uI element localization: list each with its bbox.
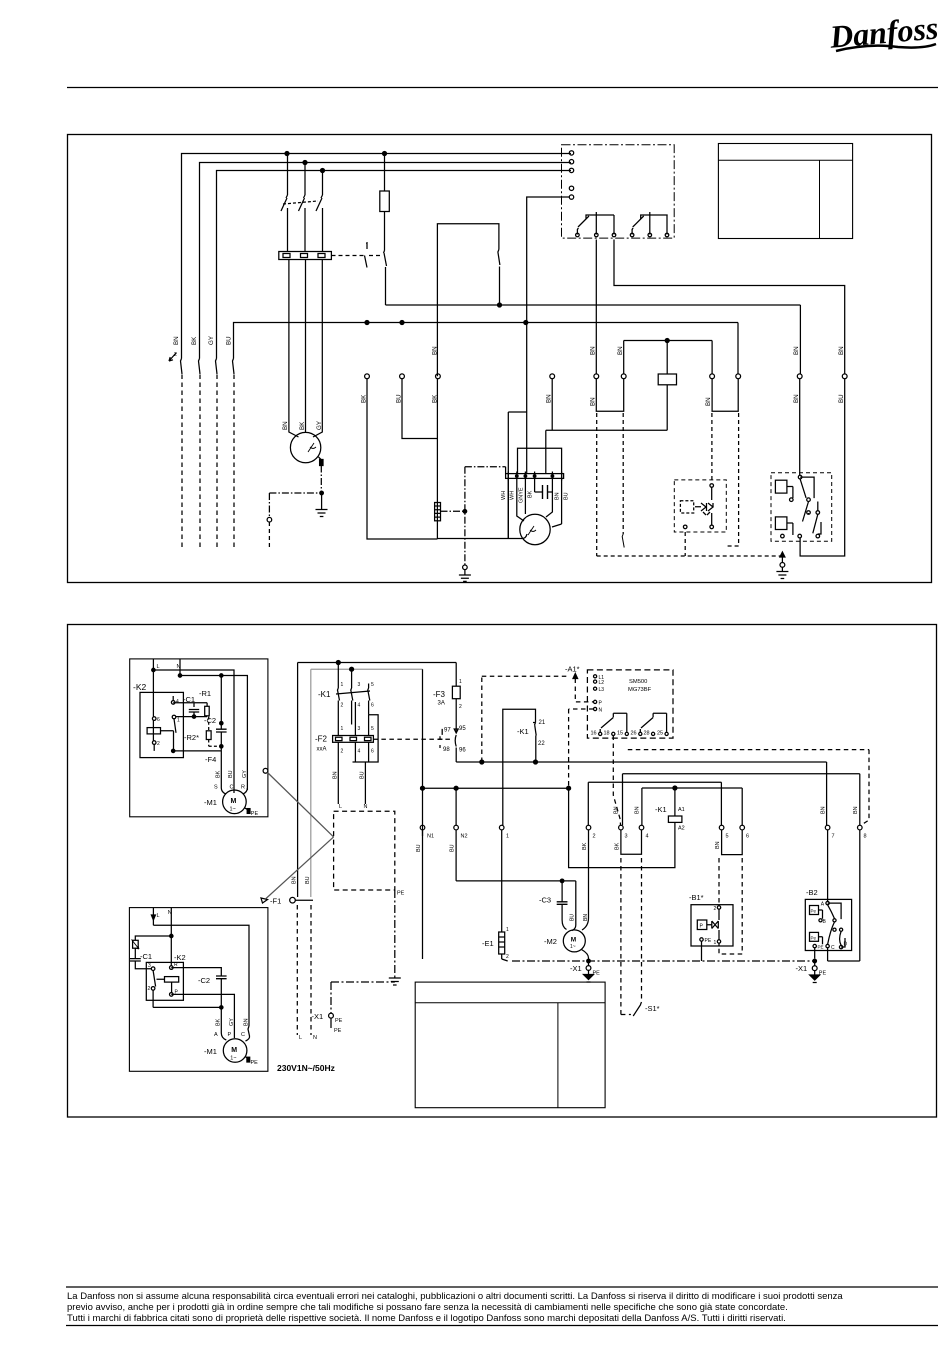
module2 C2 bottom [220, 979, 222, 1007]
B-box2 sensor square 2 [775, 517, 787, 530]
node module2 A [220, 1006, 223, 1009]
svg-text:5: 5 [371, 726, 374, 732]
dashed door-switch loop legs [596, 413, 598, 556]
motor wires below overload [289, 260, 322, 438]
A-box relay group 2 terminals [630, 233, 634, 237]
svg-text:BK: BK [216, 770, 222, 778]
PTC dash-dot wire down [320, 466, 322, 494]
svg-text:-K1: -K1 [655, 805, 667, 814]
callout line upper [268, 773, 334, 837]
svg-text:25: 25 [657, 731, 663, 737]
A-box relay contact group 1 [577, 212, 614, 235]
dash-dot wire PE horizontal [269, 492, 321, 494]
trip contact 95-96 [454, 729, 458, 762]
dashed S1 wire left [621, 858, 631, 1015]
svg-text:1: 1 [459, 679, 462, 685]
C2 wire bottom [220, 732, 222, 751]
wire term5-6 U below [722, 830, 743, 855]
wire PE stub [781, 556, 783, 571]
svg-text:28: 28 [644, 731, 650, 737]
overload relay F2 body [279, 252, 332, 260]
detail module 2 box [129, 908, 268, 1072]
svg-text:2: 2 [157, 741, 160, 747]
box2 top bus N gray [311, 668, 423, 670]
diagram 2 border [68, 625, 937, 1118]
capacitor C2 plates module2 [216, 976, 227, 979]
node busN-1 [365, 321, 369, 325]
ground symbol right [776, 572, 788, 579]
svg-text:PE: PE [819, 971, 827, 977]
K2m2 pin R [170, 966, 174, 970]
svg-text:BU: BU [228, 770, 234, 778]
capacitor C3 plates [557, 902, 568, 905]
PE dash-dot drop right [331, 890, 395, 982]
wire term2 below to fan M2 [582, 830, 589, 930]
svg-text:-R2*: -R2* [184, 733, 199, 742]
resistor R2 dashed link [209, 717, 219, 747]
F2 loop [353, 715, 379, 804]
svg-text:-R1: -R1 [199, 689, 211, 698]
SM500 terminal L2 [594, 680, 597, 683]
B2 X1 node [813, 959, 817, 963]
svg-text:2: 2 [714, 906, 717, 912]
R1 bottom wire [206, 715, 208, 718]
SM500 terminal L1 [594, 675, 597, 678]
svg-text:BN: BN [244, 1018, 250, 1026]
svg-text:96: 96 [459, 748, 466, 754]
SM500 terminal N [594, 707, 597, 710]
node top bus N K1 [350, 667, 354, 671]
coil rail y430 [546, 429, 667, 431]
top rule [67, 87, 938, 89]
K2 blade [174, 719, 176, 733]
F2 notch 1 [336, 737, 343, 740]
fuse F3 wire top [455, 663, 457, 687]
node top bus K1 [336, 661, 340, 665]
A-box input terminals [569, 151, 573, 155]
svg-text:97: 97 [444, 728, 451, 734]
enclosure loop contact blade [498, 250, 500, 306]
module1 L wire [152, 659, 154, 670]
svg-text:4: 4 [176, 699, 179, 705]
svg-text:PE: PE [251, 811, 259, 817]
svg-text:BN: BN [282, 421, 289, 430]
E1 pe stub [502, 959, 508, 961]
svg-text:BU: BU [305, 876, 311, 884]
B2 PE terminal [813, 944, 816, 947]
svg-text:A: A [214, 1032, 218, 1038]
node rail A K1aux [534, 760, 538, 764]
callout circle module1 [263, 768, 268, 773]
svg-text:6: 6 [371, 749, 374, 755]
svg-text:BN: BN [634, 806, 640, 814]
svg-text:BK: BK [361, 394, 368, 403]
fuse F body [380, 191, 390, 212]
svg-text:PE: PE [593, 971, 601, 977]
node C2 top [220, 722, 223, 725]
fuse F lower line [384, 212, 386, 251]
rail B y773.7 [623, 774, 860, 826]
svg-text:Pe: Pe [811, 935, 817, 940]
legend table header line [415, 1002, 605, 1004]
dashed B1 wire left [718, 858, 720, 905]
overload trip dashed link [332, 255, 365, 257]
node module2 N [170, 934, 173, 937]
svg-text:N1: N1 [427, 834, 434, 840]
svg-text:WH: WH [510, 491, 516, 500]
svg-text:BN: BN [333, 771, 339, 779]
A1 dashed riser [482, 676, 568, 762]
dash-dot PE rail [512, 960, 815, 962]
SM500 bottom terminals [599, 732, 602, 735]
svg-text:2: 2 [341, 703, 344, 709]
terminal row box2 [420, 825, 425, 830]
dashed B-box1 right leg [726, 413, 739, 546]
K2 coil wire [161, 731, 174, 734]
svg-text:BU: BU [360, 771, 366, 779]
B2 box [805, 899, 851, 950]
svg-text:1~: 1~ [230, 1056, 236, 1062]
svg-text:2: 2 [148, 986, 151, 992]
svg-text:BK: BK [191, 336, 198, 345]
module2 N wire [170, 908, 172, 966]
svg-text:PE: PE [705, 938, 712, 944]
wire U term 712-738 [712, 379, 738, 412]
node rail N N2 [454, 786, 458, 790]
contactor K1 box2 pole1 [337, 665, 339, 725]
node rail A dashed A1 [480, 760, 484, 764]
B1 terminal 1 [717, 940, 720, 943]
resistor R1 body [205, 706, 210, 716]
node aux bus [665, 339, 669, 343]
module2 PE stub [245, 1057, 248, 1059]
B-box2 internal wiring [787, 477, 821, 535]
svg-text:-X1: -X1 [570, 964, 582, 973]
relay K2 box module1 [140, 692, 183, 757]
contactor K1 box2 pole2 [351, 671, 353, 725]
B2 X1 circle [812, 966, 817, 971]
strip terminal dots [516, 475, 519, 478]
svg-text:A1: A1 [678, 807, 685, 813]
contactor K1 mechanical link [283, 201, 318, 204]
svg-text:1: 1 [177, 718, 180, 724]
dashed B1 wire right [719, 858, 742, 954]
fuse F3 wire bottom [455, 699, 457, 732]
node PE link [463, 510, 467, 514]
contactor K1 box2 pole3 [368, 684, 370, 715]
trip tick 97-98 [438, 729, 443, 748]
footer top rule [66, 1286, 938, 1288]
PTC arrow [132, 940, 140, 950]
svg-text:BK: BK [432, 394, 439, 403]
svg-text:M: M [231, 1047, 237, 1054]
node bus1-K1 [285, 152, 289, 156]
K2 pin2 wire [153, 720, 173, 751]
K2m2 coil wire [157, 979, 172, 992]
svg-text:4: 4 [358, 749, 361, 755]
terminal circle PE right [780, 563, 785, 568]
module1 PE stub [245, 808, 249, 810]
wire from A-box P to bus322 [527, 197, 569, 412]
svg-text:BK: BK [216, 1018, 222, 1026]
B-box1 pressure switch symbol [695, 503, 713, 515]
K2m2 pin 2 [151, 987, 155, 991]
svg-text:M: M [231, 798, 237, 805]
svg-text:BN: BN [590, 397, 597, 406]
svg-text:1: 1 [341, 726, 344, 732]
svg-text:1: 1 [506, 927, 509, 933]
wire busN end down [737, 323, 739, 374]
control wire y305 [386, 304, 801, 306]
disconnect arrow label [169, 353, 176, 361]
capacitor C1 plates module2 [130, 959, 141, 961]
svg-text:-C1: -C1 [140, 952, 152, 961]
node y305 junction [498, 303, 502, 307]
svg-text:1: 1 [506, 834, 509, 840]
contactor K1 pole 2 blade [299, 195, 306, 211]
module2 C1 branch [135, 936, 171, 969]
K2 pin 1 [172, 715, 176, 719]
svg-text:-M1: -M1 [204, 1047, 217, 1056]
K1 coil wire A1 [674, 788, 676, 816]
node C2 bottom [220, 745, 223, 748]
wire U term 596-623 [596, 379, 623, 412]
node C3 tap [560, 879, 564, 883]
module2 L wire with arrow [152, 908, 154, 925]
svg-text:BK: BK [528, 490, 534, 498]
wire term1 below to E1 [501, 830, 503, 928]
svg-text:N: N [313, 1035, 317, 1041]
module1 PE pin [247, 809, 250, 814]
C3 bottom wire [562, 905, 566, 930]
wire term4 to coil rail [551, 379, 553, 431]
module2 P rail [171, 994, 234, 1033]
svg-text:-K2: -K2 [133, 682, 147, 692]
wire bus N BU [234, 323, 739, 359]
svg-text:-B2: -B2 [806, 888, 818, 897]
svg-text:3: 3 [625, 834, 628, 840]
F1 link line [295, 899, 313, 901]
svg-text:6: 6 [371, 703, 374, 709]
svg-text:1~: 1~ [570, 944, 576, 950]
svg-text:WH: WH [501, 491, 507, 500]
A-box output wire 596 [595, 240, 597, 374]
control box inner divider vertical [819, 160, 821, 238]
svg-text:2: 2 [593, 834, 596, 840]
node bus3-K1 [321, 169, 325, 173]
A-box relay contact group 2 [632, 212, 668, 235]
svg-text:BN: BN [793, 394, 800, 403]
svg-text:-C1: -C1 [183, 695, 195, 704]
M2 bottom wire [582, 950, 589, 962]
F2 notch 3 [365, 737, 372, 740]
SM500 terminal L3 [594, 687, 597, 690]
fuse F3 body [452, 686, 460, 699]
wire term7 below to B2 A [827, 830, 829, 901]
node busN-2 [400, 321, 404, 325]
footer bottom rule [66, 1325, 938, 1327]
callout triangle module2 [261, 898, 268, 903]
ground symbol mid [459, 570, 471, 582]
motor rotation mark [308, 443, 316, 452]
X1 dash-dot stub [330, 982, 332, 1013]
svg-text:MG73BF: MG73BF [628, 687, 652, 693]
SM500 relay contact 2 [640, 713, 666, 732]
K1 mechanical link box2 [336, 691, 370, 694]
wire bus L3 GY [217, 171, 572, 359]
svg-text:M: M [571, 937, 576, 944]
K2m2 pin 3 [151, 967, 155, 971]
B2 D terminal [839, 945, 842, 948]
C1 wires [193, 712, 195, 716]
svg-text:7: 7 [832, 834, 835, 840]
X1 PE stub below [330, 1018, 332, 1028]
contactor K1 pole 3 blade [316, 195, 323, 211]
svg-text:2: 2 [506, 954, 509, 960]
legend table box [415, 982, 605, 1108]
SM500 dashed box [587, 670, 673, 738]
svg-text:C: C [230, 785, 234, 791]
node PTC-PE [320, 491, 324, 495]
node busN-3 [524, 321, 528, 325]
svg-text:GY: GY [316, 421, 323, 430]
contactor K1 pole 2 [304, 164, 306, 252]
compressor feed jog [508, 412, 526, 539]
R2 body [206, 731, 211, 740]
svg-text:BN: BN [614, 806, 620, 814]
svg-text:Pe: Pe [811, 909, 817, 914]
relay coil K body [658, 374, 676, 385]
svg-text:BN: BN [821, 806, 827, 814]
K1 coil body box2 [668, 816, 682, 822]
node rail N end [567, 786, 571, 790]
svg-text:-X1: -X1 [796, 964, 808, 973]
svg-text:-S1*: -S1* [645, 1004, 660, 1013]
dashed wire below PE terminal [268, 522, 270, 549]
compressor feed from strip mid [526, 412, 528, 474]
B2 A terminal [826, 901, 829, 904]
svg-text:BU: BU [838, 394, 845, 403]
dash-dot PE link [441, 510, 465, 512]
rail N y788 [423, 787, 569, 789]
disconnect F1 blades on supply wires [181, 359, 235, 375]
contactor K1 pole 1 blade [281, 195, 288, 211]
svg-text:1: 1 [341, 682, 344, 688]
B1 terminal 2 [717, 906, 720, 909]
svg-text:S: S [214, 785, 218, 791]
B-box2 terminals [798, 475, 802, 479]
svg-text:BN: BN [617, 346, 624, 355]
S1 blade [633, 1002, 641, 1016]
rail D y788 [642, 788, 742, 825]
B1 PE wire [701, 941, 703, 961]
ground symbol at motor [316, 495, 328, 517]
dashed L wire to plug [296, 905, 298, 1035]
svg-text:BU: BU [570, 914, 576, 921]
svg-text:18: 18 [604, 731, 610, 737]
K2 coil [147, 728, 160, 734]
B-box1 terminal top [710, 484, 714, 488]
fan motor M1 module1 [223, 790, 247, 814]
SM500 relay contact 1 [600, 713, 627, 732]
SM500 N dashed wire [569, 709, 594, 786]
svg-text:BN: BN [555, 492, 561, 500]
svg-text:xxA: xxA [317, 747, 327, 753]
compressor motor M circle [290, 432, 320, 462]
svg-text:L: L [157, 664, 160, 670]
legend table column line [557, 1003, 559, 1108]
svg-text:N: N [364, 804, 368, 810]
svg-text:BU: BU [564, 492, 570, 500]
module2 A wire [220, 1007, 222, 1033]
svg-text:L3: L3 [599, 687, 605, 693]
svg-text:4: 4 [646, 834, 649, 840]
B2 X1 stub [814, 948, 816, 975]
K2m2 coil [165, 977, 179, 983]
svg-text:BN: BN [715, 841, 721, 849]
svg-text:3: 3 [358, 726, 361, 732]
svg-text:N2: N2 [461, 834, 468, 840]
svg-text:15: 15 [617, 731, 623, 737]
B2 sensor square 1 [810, 906, 819, 915]
X1 terminal circle left [329, 1013, 334, 1018]
wire term N1 below [422, 830, 424, 959]
svg-text:3: 3 [148, 963, 151, 969]
compressor run capacitor plates [543, 485, 548, 499]
node module1 L [152, 668, 155, 671]
svg-text:SM500: SM500 [629, 679, 647, 685]
A-box output wire 614 routed [614, 240, 845, 374]
svg-text:BN: BN [853, 806, 859, 814]
svg-text:-M2: -M2 [544, 937, 557, 946]
C2 wire top [220, 677, 222, 729]
module2 C2 top rail [171, 968, 221, 976]
wire bus L2 BK [200, 163, 572, 359]
wire term 799 to B-box2 [799, 379, 801, 476]
svg-text:-K1: -K1 [318, 690, 331, 699]
wire term1 to compressor [367, 379, 437, 539]
svg-text:-M1: -M1 [204, 798, 217, 807]
svg-text:R: R [241, 785, 245, 791]
svg-text:GY: GY [229, 1018, 235, 1026]
svg-text:3: 3 [358, 682, 361, 688]
SM500 output dashed to term8 [628, 750, 869, 826]
wire N2 drop [455, 788, 457, 825]
svg-text:-E1: -E1 [482, 939, 494, 948]
K1 coil return A2 [569, 788, 675, 867]
dash-dot wire PE drop [268, 493, 270, 518]
F2 trip dashed [373, 738, 451, 740]
node rail D coil A1 [673, 786, 677, 790]
compressor motor rotation mark [528, 526, 536, 535]
B2 internal wiring [819, 903, 846, 947]
capacitor stubs [535, 481, 553, 493]
PE connector hatch body [435, 503, 441, 521]
svg-text:-C2: -C2 [204, 716, 216, 725]
callout line lower [266, 837, 334, 899]
svg-text:-F1: -F1 [270, 897, 281, 906]
B-box1 terminals bottom [683, 525, 687, 529]
wire term3-4 U below [621, 830, 642, 854]
svg-text:L: L [157, 913, 160, 919]
control box outline top right [718, 144, 852, 239]
module2 bottom rail [153, 1006, 221, 1008]
B1 sensor square [697, 920, 707, 930]
node module1 N top [178, 674, 181, 677]
overload F2 pole wires [338, 702, 368, 804]
fuse F line [384, 155, 386, 191]
ground X1-2 triangle [810, 975, 820, 980]
